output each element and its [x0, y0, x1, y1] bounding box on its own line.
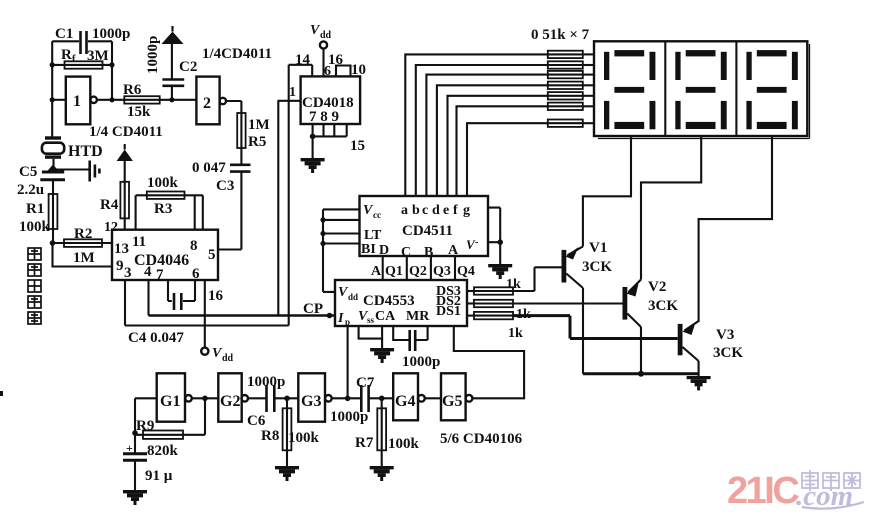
IC U-4511 CD4511 — [360, 196, 489, 260]
capacitor C3 0.047 — [192, 160, 251, 194]
svg-text:+: + — [126, 441, 133, 455]
svg-text:4: 4 — [144, 264, 152, 280]
svg-text:Q3: Q3 — [433, 264, 451, 279]
node V- junction — [497, 239, 503, 245]
wire digit3 to V3 — [699, 136, 772, 322]
wire gate1 out to R6 — [97, 99, 124, 101]
svg-text:R1: R1 — [26, 201, 44, 217]
svg-text:R4: R4 — [100, 197, 119, 213]
svg-text:G1: G1 — [160, 393, 180, 410]
svg-text:I: I — [337, 311, 344, 326]
wire DS3 to V1 base — [513, 267, 562, 291]
svg-text:dd: dd — [348, 292, 358, 302]
resistor R5 1M — [237, 113, 269, 150]
svg-text:3: 3 — [124, 265, 132, 281]
wire CD4553 LE drop — [347, 326, 349, 398]
svg-text:1/4CD4011: 1/4CD4011 — [202, 46, 272, 62]
wire R6 to gate2 — [160, 99, 197, 101]
transistor V3 3CK — [678, 321, 744, 376]
wire G1 to G2 — [192, 397, 219, 399]
wire Q1 to D — [382, 256, 384, 280]
wires CD4018 bottom pins — [313, 124, 365, 154]
svg-text:C6: C6 — [247, 413, 266, 429]
wire DS2 to V2 base — [513, 302, 623, 304]
node CD4018 ground junction — [310, 134, 316, 140]
wire R5 to C3 — [240, 148, 242, 164]
svg-text:Q2: Q2 — [409, 264, 427, 279]
capacitor 1000p at MR pins — [393, 326, 440, 370]
power arrow above C2 — [162, 26, 184, 44]
power arrow above R4 — [117, 144, 133, 161]
svg-text:8: 8 — [190, 238, 198, 254]
svg-text:-: - — [475, 237, 478, 248]
node rail-Rf junction — [50, 62, 55, 67]
svg-text:5: 5 — [208, 247, 216, 263]
display digit 3 segments — [746, 50, 797, 129]
svg-text:R2: R2 — [74, 226, 92, 242]
svg-text:R8: R8 — [261, 428, 279, 444]
resistor R3 100k — [136, 175, 203, 230]
node G1 output junction — [202, 396, 208, 402]
capacitor C2 1000p — [145, 36, 197, 100]
resistor 1k DS2 — [467, 300, 531, 322]
svg-text:ss: ss — [367, 315, 375, 325]
svg-text:Q1: Q1 — [385, 264, 403, 279]
svg-text:CD4511: CD4511 — [402, 223, 453, 239]
watermark .com — [796, 480, 864, 512]
svg-text:C5: C5 — [19, 164, 37, 180]
wire gate2 output to R5 — [226, 101, 241, 113]
watermark 21IC — [727, 470, 799, 512]
wire Q3 to B — [430, 256, 432, 280]
piezo sensor HTD — [42, 136, 103, 160]
wire pin16 to Vdd — [205, 280, 224, 348]
ground under V3 — [687, 376, 711, 390]
svg-text:13: 13 — [114, 241, 129, 257]
node bus junctions — [320, 217, 325, 246]
node C2 tap — [169, 97, 174, 102]
svg-text:a: a — [401, 203, 408, 218]
wire digit1 to V1 — [583, 136, 631, 247]
wire segment-f — [457, 106, 548, 196]
wire feedback right vertical — [111, 41, 113, 100]
svg-text:G5: G5 — [442, 393, 462, 410]
terminal Vdd (CD4046 pin16) — [201, 346, 233, 364]
resistor array-2 — [548, 61, 594, 68]
svg-text:R6: R6 — [123, 82, 142, 98]
wire HTD to C5 — [52, 159, 54, 170]
label 1/4CD4011 — [202, 46, 272, 62]
label pulse-sensor chinese text — [28, 248, 41, 324]
ground under R7 — [370, 450, 394, 481]
capacitor 91u (polarized) — [123, 433, 173, 490]
label C4 0.047 — [128, 330, 184, 346]
svg-text:9: 9 — [116, 258, 124, 274]
resistor R4 — [100, 161, 129, 218]
capacitor C6 1000p — [247, 374, 298, 429]
wire R1 to R2 node — [52, 229, 54, 243]
svg-text:3CK: 3CK — [582, 259, 612, 275]
capacitor C7 1000p — [330, 375, 393, 425]
svg-text:CA: CA — [375, 309, 396, 324]
gate G-2 (1/4 CD4011) — [196, 77, 226, 125]
svg-text:C7: C7 — [356, 375, 375, 391]
svg-text:G2: G2 — [220, 393, 240, 410]
wire R4 to pin12 — [104, 218, 125, 235]
wire pin1 net vertical — [277, 101, 279, 316]
resistor R8 100k — [261, 398, 320, 450]
svg-text:A: A — [371, 264, 382, 279]
svg-text:D: D — [379, 243, 389, 258]
svg-text:R3: R3 — [154, 201, 172, 217]
gate G5 — [441, 373, 472, 420]
chassis ground right of C5 — [54, 161, 100, 182]
resistor array-4 — [548, 82, 594, 89]
IC U-4046 CD4046 — [112, 230, 218, 283]
ground under 91u — [123, 490, 147, 505]
pin10 notch CD4018 — [336, 62, 366, 78]
resistor array-5 — [548, 92, 594, 99]
node R7 junction — [379, 396, 385, 402]
resistor array-6 — [548, 103, 594, 110]
svg-text:2.2u: 2.2u — [17, 182, 44, 198]
capacitor C5 2.2u (polarized) — [17, 164, 65, 198]
IC U-4018 CD4018 — [301, 76, 361, 125]
ground under CD4018 — [301, 136, 325, 173]
svg-text:LT: LT — [364, 228, 382, 243]
transistor V1 3CK — [562, 240, 613, 374]
wire to CD4046 pin9 — [53, 243, 113, 267]
wire CD4511 left supply bus — [323, 209, 360, 292]
svg-text:7 8 9: 7 8 9 — [309, 109, 339, 125]
ground at CD4511 V- — [488, 264, 512, 279]
svg-text:G4: G4 — [395, 393, 415, 410]
ground under CD4553 — [370, 339, 394, 363]
svg-text:3M: 3M — [87, 48, 109, 64]
svg-text:14: 14 — [295, 52, 311, 68]
wire segment-g — [467, 123, 548, 196]
svg-text:R9: R9 — [136, 418, 154, 434]
svg-text:dd: dd — [222, 353, 234, 364]
svg-text:g: g — [463, 203, 470, 218]
terminal Vdd above CD4018 — [310, 23, 344, 79]
gate G4 — [393, 373, 425, 420]
node LE junction — [345, 396, 351, 402]
wire C5 to R1 — [52, 180, 54, 194]
node CP junction at CD4553 — [327, 313, 333, 319]
label CP — [303, 301, 323, 317]
wire CD4553 OF to G5 output — [454, 326, 524, 398]
svg-text:b: b — [412, 203, 420, 218]
svg-text:15: 15 — [350, 138, 365, 154]
svg-text:V2: V2 — [648, 279, 666, 295]
svg-text:2: 2 — [203, 95, 211, 112]
wire CD4018 pin14 — [289, 52, 313, 76]
svg-text:1: 1 — [73, 93, 81, 110]
svg-text:p: p — [345, 317, 350, 327]
node rail-gate1 input — [50, 97, 55, 102]
wire C3 down to CD4046 pin5 — [218, 172, 241, 250]
svg-text:1M: 1M — [248, 117, 270, 133]
watermark dianziwang glyphs — [802, 470, 860, 491]
wire left rail — [51, 41, 53, 136]
resistor array 0.51k x 7 — [531, 27, 590, 43]
wire segment-b — [416, 65, 548, 196]
transistor V2 3CK — [623, 279, 679, 374]
svg-text:21IC: 21IC — [727, 470, 799, 512]
svg-text:C4 0.047: C4 0.047 — [128, 330, 184, 346]
label 5/6 CD40106 — [440, 431, 523, 447]
svg-text:7: 7 — [156, 267, 164, 283]
wires CA pins U-loop — [359, 326, 383, 339]
labels A Q1 Q2 Q3 Q4 — [371, 264, 475, 279]
svg-text:15k: 15k — [127, 104, 151, 120]
svg-text:f: f — [453, 203, 458, 218]
svg-text:1000p: 1000p — [92, 26, 130, 42]
wire pin14 net vertical — [288, 65, 290, 326]
svg-text:G3: G3 — [301, 393, 321, 410]
node R9 left junction — [132, 430, 138, 436]
wire G4 to G5 — [425, 397, 441, 399]
wire gate1 input — [52, 99, 66, 101]
svg-text:820k: 820k — [147, 443, 179, 459]
svg-text:V1: V1 — [589, 240, 607, 256]
node R8 junction — [284, 396, 290, 402]
svg-text:cc: cc — [373, 210, 381, 220]
svg-text:100k: 100k — [147, 175, 179, 191]
svg-text:C1: C1 — [55, 26, 73, 42]
node R1/R2 junction — [50, 240, 56, 246]
svg-text:100k: 100k — [288, 430, 320, 446]
svg-text:d: d — [432, 203, 440, 218]
capacitor C1 — [55, 26, 130, 54]
wire digit2 to V2 — [641, 136, 701, 280]
svg-text:V3: V3 — [716, 327, 734, 343]
display digit 2 segments — [675, 50, 726, 129]
left edge mark — [0, 391, 3, 396]
resistor array-7 — [548, 120, 594, 127]
label 1/4 CD4011 — [89, 124, 163, 140]
svg-text:1/4 CD4011: 1/4 CD4011 — [89, 124, 163, 140]
resistor Rf 3M — [52, 47, 112, 69]
svg-text:0 51k × 7: 0 51k × 7 — [531, 27, 590, 43]
svg-text:R7: R7 — [355, 435, 374, 451]
svg-text:1000p: 1000p — [330, 409, 368, 425]
svg-text:11: 11 — [132, 234, 146, 250]
wire segment-d — [437, 85, 548, 196]
svg-text:Q4: Q4 — [457, 264, 475, 279]
svg-text:1k: 1k — [506, 277, 521, 292]
svg-text:C2: C2 — [179, 59, 197, 75]
wire segment-c — [426, 75, 547, 196]
resistor array-3 — [548, 71, 594, 78]
svg-text:R5: R5 — [248, 134, 266, 150]
resistor R7 100k — [355, 398, 420, 452]
wire feedback top (C1 branch) — [52, 40, 112, 42]
wire CP net — [149, 314, 335, 317]
svg-text:dd: dd — [320, 30, 332, 41]
node V2 collector junction — [638, 371, 644, 377]
svg-text:100k: 100k — [388, 436, 420, 452]
wire Q4 to A — [454, 256, 456, 280]
wire CD4511 right V- — [488, 208, 500, 264]
svg-text:100k: 100k — [19, 219, 51, 235]
IC U-4553 CD4553 — [335, 280, 467, 327]
svg-text:3CK: 3CK — [648, 298, 678, 314]
svg-text:C3: C3 — [216, 178, 234, 194]
display DS 3-digit outer box — [594, 41, 810, 138]
wire DS1 to V3 base — [513, 316, 678, 339]
svg-text:1000p: 1000p — [402, 354, 440, 370]
svg-text:0 047: 0 047 — [192, 160, 226, 176]
resistor 1k DS3 — [467, 277, 521, 295]
svg-text:BI: BI — [361, 242, 376, 257]
svg-text:1M: 1M — [73, 250, 95, 266]
svg-text:A: A — [448, 243, 459, 258]
resistor R2 1M — [53, 226, 113, 266]
gate G3 — [298, 373, 331, 421]
wire G3 out — [332, 397, 361, 399]
svg-text:c: c — [422, 203, 428, 218]
wire CD4018 pin1 — [278, 85, 301, 101]
gate G1 — [157, 373, 192, 421]
capacitor between pins 7 and 6 — [168, 280, 195, 310]
svg-text:1k: 1k — [508, 326, 523, 341]
svg-text:16: 16 — [208, 288, 224, 304]
resistor R1 100k — [19, 194, 57, 235]
svg-text:5/6 CD40106: 5/6 CD40106 — [440, 431, 523, 447]
resistor array-1 — [548, 51, 594, 58]
resistor R9 820k — [135, 398, 205, 459]
gate G2 — [218, 373, 248, 421]
svg-text:HTD: HTD — [68, 143, 103, 160]
svg-text:CP: CP — [303, 301, 323, 317]
wire collector bus — [583, 372, 699, 375]
svg-text:DS1: DS1 — [436, 304, 461, 319]
svg-text:e: e — [443, 203, 449, 218]
svg-text:1: 1 — [289, 85, 296, 100]
node gate1 output — [109, 97, 114, 102]
wire segment-a — [405, 54, 548, 196]
svg-text:1000p: 1000p — [145, 36, 161, 74]
resistor 1k DS1 — [467, 312, 523, 341]
wire G1 input — [135, 398, 157, 433]
svg-text:91 µ: 91 µ — [145, 468, 173, 484]
svg-text:CD4553: CD4553 — [363, 293, 415, 309]
svg-text:3CK: 3CK — [713, 345, 743, 361]
wire segment-e — [448, 96, 548, 196]
svg-text:6: 6 — [192, 266, 200, 282]
wire C4 net — [125, 324, 289, 326]
wire Q2 to C — [406, 256, 408, 280]
svg-text:1000p: 1000p — [247, 374, 285, 390]
wire pin3 drop — [124, 280, 126, 326]
display digit 1 segments — [604, 50, 655, 129]
wire pin4 drop — [147, 280, 149, 316]
resistor R6 15k — [123, 82, 160, 120]
node Rf-right junction — [109, 62, 114, 67]
gate G-1 (1/4 CD4011) — [66, 77, 97, 125]
ground under R8 — [275, 450, 299, 481]
svg-text:MR: MR — [406, 309, 430, 324]
